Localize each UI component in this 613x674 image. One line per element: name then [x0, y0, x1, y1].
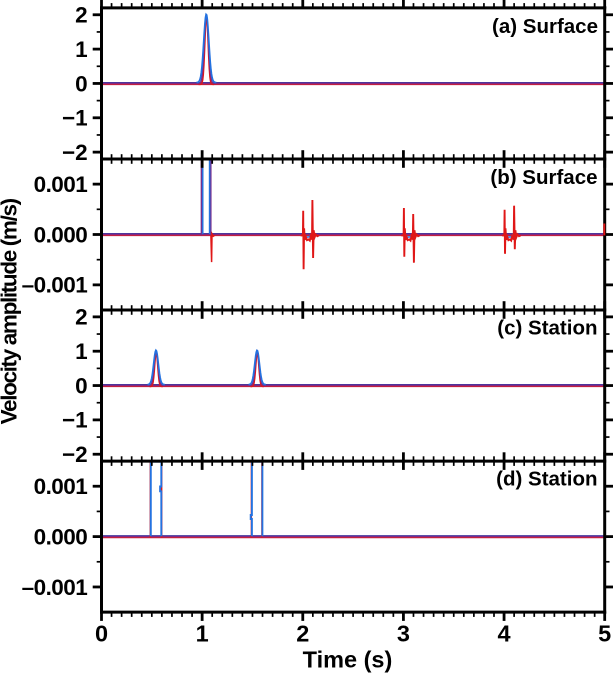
svg-text:1: 1 [75, 339, 88, 364]
panel (b) red wiggle burst at t=3.05 [401, 208, 419, 263]
svg-text:2: 2 [75, 3, 88, 28]
panel (c) zero-velocity baseline: blended baseline (indigo/purple/crimson) [102, 385, 605, 387]
amplitude-axis tick marks of panel (a) [93, 15, 613, 152]
panel (d) red solid clipped pulses t=0.49-0.60, t=1.49-1.60 [150, 462, 262, 538]
amplitude-axis tick marks of panel (c) [93, 317, 613, 454]
svg-text:5: 5 [598, 621, 611, 647]
panel (c) purple blend of pulses (middle) [149, 351, 265, 385]
time-axis tick marks on bottom x-axis of panel (d) [102, 612, 605, 621]
y-axis labels of panel (a): 2 1 0 -1 -2 [62, 3, 88, 165]
svg-text:2: 2 [296, 621, 309, 647]
time-axis tick marks on boundary between panels (b) and (c) [102, 301, 605, 319]
svg-text:3: 3 [397, 621, 410, 647]
panel (d) blue dashed clipped pulses with small steps (on top) [151, 462, 263, 537]
panel (b) red wiggle burst at t=4.05 [502, 206, 521, 254]
y-axis labels of panel (c): 2 1 0 -1 -2 [62, 305, 88, 467]
svg-text:0.001: 0.001 [34, 474, 88, 499]
svg-text:4: 4 [498, 621, 511, 647]
panel (a) zero-velocity baseline: blended baseline (indigo/purple/crimson) [102, 83, 605, 85]
panel (a) blue dashed curve pulse at t=1.04 (outer) [197, 14, 217, 82]
svg-text:2: 2 [75, 305, 88, 330]
y-axis labels of panel (b): 0.001 0.000 -0.001 [22, 172, 88, 298]
svg-text:–0.001: –0.001 [22, 273, 88, 298]
panel (d) zero-velocity baseline: blended baseline (indigo/purple/crimson) [102, 536, 605, 538]
panel (b) blue dip under wiggle at t=4.05 [505, 234, 513, 238]
svg-text:0: 0 [75, 373, 88, 398]
panel (a) red solid curve pulse at t=1.04 (inner) [199, 17, 215, 85]
panel (b) zero-velocity baseline: blended baseline (indigo/purple/crimson) [102, 234, 605, 236]
svg-text:0.000: 0.000 [34, 222, 88, 247]
time-axis tick marks on top frame of panel (a) [102, 0, 605, 8]
svg-text:Velocity amplitude (m/s): Velocity amplitude (m/s) [0, 198, 21, 424]
panel (b) red wiggle burst at t=2.05 [301, 200, 319, 269]
panel (b) blue dip under wiggle at t=3.05 [405, 234, 413, 238]
svg-text:(d) Station: (d) Station [496, 468, 597, 491]
panel (b) blue dip under wiggle at t=2.05 [304, 234, 312, 238]
panel (b) blue clipped spike sides t=1.0/1.08 (inner) [203, 160, 210, 235]
svg-text:–0.001: –0.001 [22, 575, 88, 600]
panel (a) purple blend of pulse at t=1.04 (middle) [198, 15, 216, 84]
svg-text:(b) Surface: (b) Surface [490, 166, 597, 189]
x-axis labels 0..5 below bottom axis [95, 621, 611, 647]
svg-text:Time (s): Time (s) [303, 647, 393, 673]
svg-text:(a) Surface: (a) Surface [492, 15, 598, 38]
svg-text:−1: −1 [62, 408, 88, 433]
svg-text:−2: −2 [62, 140, 88, 165]
panel (c) red solid curve pulses (inner) [150, 353, 264, 387]
panel (c) blue dashed curve pulses at t=0.54, t=1.55 (outer) [148, 350, 266, 384]
svg-text:−1: −1 [62, 106, 88, 131]
svg-text:1: 1 [196, 621, 209, 647]
horizontal frame lines (panel boundaries) [100, 8, 606, 612]
vertical frame lines (left and right axes) [102, 6, 605, 613]
svg-text:0.000: 0.000 [34, 524, 88, 549]
panel (b) red clipped spike at right edge t=5.0 (drawn over frame) [603, 224, 605, 236]
amplitude-axis tick marks of panel (b) [93, 184, 613, 285]
amplitude-axis tick marks of panel (d) [93, 486, 613, 587]
svg-text:−2: −2 [62, 442, 88, 467]
panel (b) red down-spike at t=1.09 [211, 234, 215, 262]
time-axis tick marks on boundary between panels (a) and (b) [102, 150, 605, 168]
svg-text:0.001: 0.001 [34, 172, 88, 197]
svg-text:0: 0 [75, 71, 88, 96]
svg-text:1: 1 [75, 37, 88, 62]
svg-text:0: 0 [95, 621, 108, 647]
time-axis tick marks on boundary between panels (c) and (d) [102, 452, 605, 470]
svg-text:(c) Station: (c) Station [497, 317, 597, 340]
y-axis labels of panel (d): 0.001 0.000 -0.001 [22, 474, 88, 600]
panel (b) purple clipped spike sides t=1.0/1.08 (outer) [202, 160, 211, 236]
